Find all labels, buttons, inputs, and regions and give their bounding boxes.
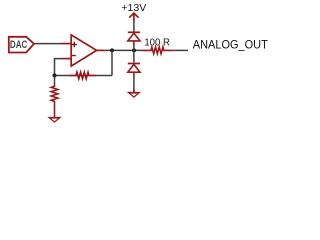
ground symbol left — [47, 117, 61, 123]
wire DAC to op-amp non-inverting input — [34, 43, 62, 45]
op-amp U1 — [62, 35, 105, 66]
wire D2 to ground — [133, 77, 135, 90]
wire D1 to node — [133, 46, 135, 50]
ground symbol right — [127, 89, 141, 98]
pin stub + input — [62, 43, 71, 45]
wire op-amp output to node — [105, 49, 143, 51]
junction node feedback left — [53, 74, 57, 78]
wire feedback riser right — [111, 50, 113, 75]
pin stub - input — [62, 58, 71, 60]
svg-text:100 R: 100 R — [144, 38, 170, 49]
triangle body — [71, 35, 96, 66]
wire to resistor R2 — [54, 76, 56, 85]
svg-text:DAC: DAC — [10, 39, 28, 51]
diode D2 — [128, 64, 140, 77]
wire feedback rail — [55, 75, 113, 77]
wire inverting input — [55, 59, 63, 76]
svg-text:ANALOG_OUT: ANALOG_OUT — [193, 38, 268, 52]
output pin stub — [97, 49, 105, 51]
wire resistor to ANALOG_OUT — [173, 49, 188, 51]
wire power to D1 — [133, 22, 135, 32]
resistor R3 100R — [142, 47, 172, 54]
power arrow +13V — [129, 13, 138, 22]
plus sign — [72, 42, 77, 47]
minus sign — [72, 55, 76, 57]
net label DAC — [9, 37, 34, 53]
junction node diode column — [132, 48, 136, 52]
junction node feedback tap — [110, 48, 114, 52]
wire node to D2 — [133, 50, 135, 62]
resistor R2 to ground — [51, 84, 58, 118]
diode D1 — [128, 32, 140, 46]
resistor R feedback — [69, 72, 97, 79]
